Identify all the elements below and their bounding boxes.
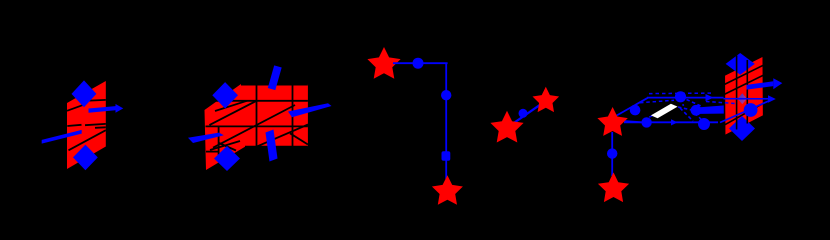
dashed edge to N4	[678, 107, 694, 111]
wire	[67, 105, 83, 111]
panel 5: red plane	[724, 56, 763, 136]
lattice bottom rail	[624, 121, 718, 123]
node hexagon	[630, 105, 641, 116]
diagonal wire desc	[219, 143, 236, 151]
node circle	[607, 148, 617, 158]
star S3	[490, 111, 523, 143]
diagonal wire	[210, 141, 240, 150]
thin line horizontal	[724, 98, 769, 100]
grid vertical short	[218, 126, 220, 158]
star S1	[367, 47, 400, 79]
wire	[507, 101, 546, 128]
edge bottom	[245, 146, 308, 148]
white plaquette	[651, 104, 678, 118]
wire horizontal	[393, 62, 448, 64]
wire vertical	[611, 132, 613, 176]
panel 1: red membrane plane	[67, 81, 106, 169]
diamond site (plane top)	[726, 53, 755, 75]
diagonal wire	[251, 125, 308, 150]
wire diagonal	[725, 103, 764, 125]
diagonal wire	[213, 105, 295, 148]
arrow (plane upper)	[747, 81, 774, 89]
arrow (panel 1 left)	[42, 130, 82, 144]
rail arrowhead	[671, 119, 678, 125]
edge star to lattice	[617, 121, 644, 123]
dashed edge N2 to plaquette	[644, 113, 659, 120]
star S6	[598, 172, 629, 202]
wire diagonal	[724, 75, 763, 94]
diamond site (panel 1 bottom)	[73, 145, 98, 171]
blue dashed over plane	[706, 102, 735, 104]
rail arrowhead	[706, 94, 714, 101]
diamond site (panel 2 top-left)	[212, 82, 238, 108]
wire diagonal	[724, 65, 763, 84]
node circle on plane	[744, 103, 758, 117]
grid horizontal	[206, 100, 308, 102]
wire	[69, 130, 106, 150]
arrow (panel 1 right)	[89, 106, 116, 113]
wire	[90, 99, 106, 102]
dashed hidden top edge	[649, 92, 714, 95]
node circle	[441, 90, 451, 100]
arrow (panel 2 left)	[188, 133, 224, 143]
grid vertical	[256, 83, 258, 147]
node hexagon	[641, 117, 651, 127]
dashed edge toward arrow	[687, 100, 703, 107]
arrow (panel 2 right)	[288, 103, 332, 117]
wire vertical	[445, 63, 447, 179]
thin arrowhead	[768, 95, 776, 102]
wire	[85, 124, 106, 125]
diagonal wire	[290, 133, 308, 144]
tilted plaquette (panel 2 bottom-right)	[266, 130, 278, 162]
edge star to lattice	[614, 98, 648, 117]
node circle	[519, 109, 528, 118]
dashed edge right of plaquette	[680, 108, 693, 121]
node circle	[413, 58, 424, 69]
panel 2: red slab	[205, 84, 308, 170]
wire under diamond	[215, 101, 247, 111]
star S2	[432, 175, 463, 205]
dashed edge above plaquette	[640, 100, 674, 102]
star S4	[533, 87, 560, 112]
diamond site (panel 1 top)	[72, 80, 97, 107]
grid horizontal	[206, 125, 308, 127]
dashed edge below N3	[681, 99, 684, 106]
diamond defect purple	[738, 93, 747, 104]
diamond site (plane bottom)	[729, 116, 755, 141]
dashed edge N4-N5	[695, 114, 702, 121]
diamond site (panel 2 bottom)	[214, 146, 240, 171]
tilted plaquette (panel 2 top)	[268, 65, 282, 90]
diagonal wire	[209, 101, 256, 125]
star S5	[597, 107, 627, 136]
wire vertical	[736, 56, 738, 130]
node square	[442, 151, 451, 161]
wire	[67, 125, 81, 126]
grid vertical	[292, 83, 294, 147]
grid horizontal short	[206, 151, 219, 153]
thick arrow into plane	[700, 105, 731, 114]
node circle	[675, 91, 686, 102]
wire	[95, 126, 106, 129]
wire vertical	[746, 60, 748, 124]
lattice top rail	[647, 97, 724, 99]
edge top	[241, 84, 308, 86]
node hexagon	[691, 105, 702, 116]
thin line diagonal	[720, 100, 771, 122]
node blob	[698, 118, 710, 130]
